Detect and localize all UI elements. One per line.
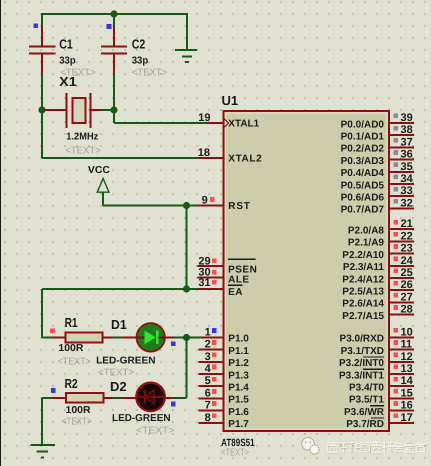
label D1 — [111, 317, 127, 332]
svg-text:ALE: ALE — [228, 275, 250, 286]
wire D1 to P1.0 — [174, 337, 202, 339]
svg-text:3: 3 — [205, 351, 211, 363]
pin 23 stub — [389, 253, 414, 255]
watermark text dianzi tongxin jishu aihaozhe — [327, 442, 427, 453]
pin number 33 — [401, 185, 413, 197]
svg-text:<TEXT>: <TEXT> — [65, 146, 101, 157]
terminal square pin 13 — [393, 365, 398, 370]
pin number 13 — [401, 363, 413, 375]
svg-text:32: 32 — [401, 197, 413, 209]
pin 26 stub — [389, 289, 414, 291]
pin 1 stub — [202, 336, 223, 338]
wire XTAL2 net — [42, 110, 199, 158]
pin number 10 — [401, 326, 413, 338]
pin number 24 — [401, 255, 414, 267]
label VCC — [88, 165, 110, 176]
pin 25 stub — [389, 277, 414, 279]
wire D2 right link — [174, 397, 187, 399]
pin name P3.3/INT1 — [339, 369, 384, 381]
svg-text:8: 8 — [205, 412, 211, 424]
svg-text:6: 6 — [205, 387, 211, 399]
pin number 1 — [205, 326, 211, 338]
svg-text:100R: 100R — [66, 405, 92, 416]
label U1 — [222, 93, 239, 108]
pin 37 stub — [389, 146, 414, 148]
ground bottom-left — [30, 445, 55, 458]
wire D1 junction down to D2 — [186, 338, 188, 399]
wire VCC to RST — [103, 205, 198, 207]
pin number 5 — [205, 375, 211, 387]
svg-text:9: 9 — [202, 194, 208, 206]
pin 34 stub — [389, 183, 414, 185]
ground top-right — [175, 50, 197, 62]
svg-text:XTAL1: XTAL1 — [228, 119, 259, 130]
terminal square pin 38 — [393, 126, 398, 131]
wire EA down to R1 — [41, 289, 43, 338]
svg-text:U1: U1 — [222, 93, 239, 108]
label D2 — [110, 379, 127, 394]
pin number 8 — [205, 412, 211, 424]
label C2 TEXT — [132, 68, 168, 79]
pin name P2.2/A10 — [342, 250, 384, 261]
svg-text:P1.4: P1.4 — [228, 383, 249, 394]
pin 15 stub — [389, 397, 414, 399]
svg-text:<TEXT>: <TEXT> — [98, 368, 134, 379]
pin name P1.5 — [228, 395, 249, 406]
wire EA net — [42, 288, 198, 290]
pin number 34 — [401, 173, 414, 185]
pin 27 stub — [389, 301, 414, 303]
junction RST — [183, 202, 190, 209]
svg-text:P3.2/INT0: P3.2/INT0 — [339, 358, 384, 369]
junction EA — [183, 285, 190, 292]
pin name P2.4/A12 — [342, 274, 384, 285]
svg-text:P1.7: P1.7 — [228, 419, 249, 430]
svg-text:C2: C2 — [132, 37, 146, 52]
pin number 36 — [401, 149, 413, 161]
pin 22 stub — [389, 240, 414, 242]
svg-text:4: 4 — [205, 363, 212, 375]
pin number 35 — [401, 161, 413, 173]
pin number 23 — [401, 243, 413, 255]
terminal square pin 11 — [393, 340, 398, 345]
label U1 TEXT — [221, 447, 249, 458]
pin 11 stub — [389, 349, 414, 351]
svg-text:<TEXT>: <TEXT> — [58, 357, 91, 368]
svg-text:11: 11 — [401, 339, 413, 351]
pin name XTAL2 — [228, 154, 262, 165]
terminal square pin 16 — [393, 401, 398, 406]
pin 5 stub — [199, 385, 223, 387]
pin number 39 — [401, 112, 413, 124]
terminal square pin 34 — [393, 175, 398, 180]
pin 18 stub — [199, 157, 223, 159]
svg-text:P0.7/AD7: P0.7/AD7 — [341, 205, 385, 216]
terminal square pin 24 — [393, 256, 398, 261]
pin number 6 — [205, 387, 211, 399]
svg-text:XTAL2: XTAL2 — [228, 154, 262, 165]
pin name XTAL1 — [228, 119, 259, 130]
svg-text:10: 10 — [401, 326, 413, 338]
pin 10 stub — [389, 336, 414, 338]
pin number 19 — [198, 112, 210, 124]
terminal square pin 28 — [393, 305, 398, 310]
resistor R1 — [52, 332, 113, 342]
pin name P1.0 — [228, 334, 249, 345]
svg-text:36: 36 — [401, 149, 413, 161]
terminal square pin 30 — [212, 270, 217, 275]
pin name P2.0/A8 — [348, 226, 385, 237]
terminal square pin 12 — [393, 352, 398, 357]
terminal square pin 17 — [393, 413, 398, 418]
value R1 100R — [58, 343, 84, 354]
pin 21 stub — [389, 228, 414, 230]
pin 13 stub — [389, 373, 414, 375]
junction C2 top — [110, 10, 117, 17]
terminal square pin 25 — [393, 269, 398, 274]
wire C1 bottom — [41, 73, 43, 110]
LED D2 — [122, 383, 174, 411]
wire R1 to D1 — [112, 337, 122, 339]
svg-text:33p: 33p — [59, 56, 75, 67]
label R1 — [65, 315, 78, 330]
svg-text:2: 2 — [205, 339, 211, 351]
pin 39 stub — [389, 122, 414, 124]
terminal square pin 23 — [393, 244, 398, 249]
svg-text:17: 17 — [401, 412, 413, 424]
pin name P3.5/T1 — [349, 395, 384, 406]
terminal square pin 15 — [393, 389, 398, 394]
pin 7 stub — [199, 410, 223, 412]
pin number 18 — [198, 147, 210, 159]
wire C2 bottom — [113, 73, 115, 110]
pin name P2.3/A11 — [343, 262, 385, 273]
svg-text:P0.5/AD5: P0.5/AD5 — [341, 180, 385, 191]
power VCC — [97, 179, 109, 207]
value D1 LED-GREEN — [96, 356, 156, 367]
svg-text:P0.2/AD2: P0.2/AD2 — [341, 144, 385, 155]
terminal square D2 right — [171, 402, 176, 407]
pin 8 stub — [199, 422, 223, 424]
pin 33 stub — [389, 195, 414, 197]
pin 4 stub — [199, 373, 223, 375]
svg-text:12: 12 — [401, 351, 413, 363]
terminal square pin 2 — [212, 340, 217, 345]
pin number 28 — [401, 304, 413, 316]
svg-text:33: 33 — [401, 185, 413, 197]
pin name P0.0/AD0 — [341, 119, 385, 130]
terminal square pin 32 — [393, 199, 398, 204]
svg-text:EA: EA — [228, 287, 243, 298]
pin name P0.2/AD2 — [341, 144, 385, 155]
pin 24 stub — [389, 265, 414, 267]
pin number 37 — [401, 136, 413, 148]
svg-text:X1: X1 — [59, 74, 76, 89]
terminal square pin 8 — [212, 413, 217, 418]
pin 29 stub — [198, 265, 223, 267]
pin 14 stub — [389, 385, 414, 387]
svg-text:P3.5/T1: P3.5/T1 — [349, 395, 384, 406]
pin number 22 — [401, 230, 413, 242]
svg-text:1: 1 — [205, 326, 211, 338]
svg-text:33p: 33p — [132, 56, 149, 67]
pin 35 stub — [389, 171, 414, 173]
terminal square D1 right — [171, 341, 176, 346]
label D1 TEXT — [98, 368, 134, 379]
pin number 2 — [205, 339, 211, 351]
pin name P1.6 — [228, 407, 249, 418]
wire C1 top — [41, 13, 43, 27]
watermark wechat logo — [302, 438, 319, 455]
svg-text:35: 35 — [401, 161, 413, 173]
label C1 — [59, 37, 72, 52]
pin number 27 — [401, 291, 413, 303]
pin 32 stub — [389, 207, 414, 209]
label X1 TEXT — [65, 146, 101, 157]
svg-text:<TEXT>: <TEXT> — [221, 447, 249, 458]
svg-text:D2: D2 — [110, 379, 127, 394]
pin name P1.3 — [228, 370, 249, 381]
pin name RST — [228, 201, 250, 212]
pin name P3.2/INT0 — [339, 357, 384, 369]
svg-text:P1.3: P1.3 — [228, 370, 249, 381]
pin name P3.4/T0 — [349, 383, 384, 394]
pin number 4 — [205, 363, 212, 375]
terminal square pin 33 — [393, 187, 398, 192]
terminal square pin 4 — [212, 365, 217, 370]
capacitor C1 — [29, 27, 56, 73]
svg-text:P3.3/INT1: P3.3/INT1 — [339, 370, 384, 381]
pin name P2.5/A13 — [342, 287, 384, 298]
terminal square pin 3 — [212, 352, 217, 357]
svg-text:P1.5: P1.5 — [228, 395, 249, 406]
svg-text:25: 25 — [401, 267, 413, 279]
value C1 33p — [59, 56, 75, 67]
label R2 TEXT — [62, 417, 92, 428]
terminal square pin 21 — [393, 220, 398, 225]
terminal square pin 29 — [212, 258, 217, 263]
pin name P0.3/AD3 — [341, 156, 385, 167]
terminal square C2 top — [107, 24, 112, 29]
terminal square pin 39 — [393, 114, 398, 119]
label R1 TEXT — [58, 357, 91, 368]
svg-text:14: 14 — [401, 375, 414, 387]
wire R2 to D2 — [112, 397, 122, 399]
label C2 — [132, 37, 146, 52]
svg-text:26: 26 — [401, 279, 413, 291]
pin name P2.6/A14 — [342, 299, 384, 310]
window edge line — [0, 0, 1, 466]
svg-text:P1.0: P1.0 — [228, 334, 249, 345]
pin name P1.2 — [228, 358, 249, 369]
pin name ALE — [228, 275, 250, 286]
svg-text:P2.6/A14: P2.6/A14 — [342, 299, 384, 310]
crystal X1 — [42, 93, 102, 128]
svg-text:15: 15 — [401, 387, 413, 399]
clock symbol XTAL1 — [224, 118, 229, 128]
svg-text:5: 5 — [205, 375, 211, 387]
junction P1.0 — [183, 334, 190, 341]
svg-text:7: 7 — [205, 400, 211, 412]
pin name P0.4/AD4 — [341, 168, 385, 179]
value D2 LED-GREEN — [112, 413, 171, 424]
svg-text:<TEXT>: <TEXT> — [132, 68, 168, 79]
pin name P0.5/AD5 — [341, 180, 385, 191]
svg-text:R2: R2 — [65, 376, 78, 391]
svg-text:P3.1/TXD: P3.1/TXD — [341, 346, 384, 357]
svg-text:R1: R1 — [65, 315, 78, 330]
value AT89S51 — [221, 437, 255, 449]
wire R2 to ground — [41, 398, 43, 445]
pin 19 stub — [207, 122, 223, 124]
pin 6 stub — [199, 397, 223, 399]
wire to R1 — [42, 337, 52, 339]
svg-text:P2.0/A8: P2.0/A8 — [348, 226, 385, 237]
svg-text:LED-GREEN: LED-GREEN — [96, 356, 156, 367]
pin number 3 — [205, 351, 211, 363]
pin number 16 — [401, 400, 413, 412]
svg-text:P0.0/AD0: P0.0/AD0 — [341, 119, 385, 130]
pin number 12 — [401, 351, 413, 363]
terminal square pin 10 — [393, 328, 398, 333]
pin name P2.7/A15 — [342, 311, 384, 322]
svg-text:P2.7/A15: P2.7/A15 — [342, 311, 384, 322]
svg-text:VCC: VCC — [88, 165, 110, 176]
svg-text:P2.4/A12: P2.4/A12 — [342, 274, 384, 285]
junction crystal left — [38, 106, 45, 113]
wire C2 top — [113, 13, 115, 27]
svg-text:<TEXT>: <TEXT> — [136, 425, 174, 436]
value C2 33p — [132, 56, 149, 67]
terminal square pin 14 — [393, 377, 398, 382]
pin name EA with overline — [228, 285, 243, 298]
terminal square R2 left — [51, 388, 56, 393]
pin 2 stub — [199, 349, 223, 351]
svg-text:P3.7/RD: P3.7/RD — [346, 419, 384, 430]
svg-text:16: 16 — [401, 400, 413, 412]
svg-text:P1.2: P1.2 — [228, 358, 249, 369]
terminal square pin 27 — [393, 293, 398, 298]
terminal square pin 26 — [393, 281, 398, 286]
pin name P3.1/TXD — [341, 346, 384, 357]
label X1 — [59, 74, 76, 89]
capacitor C2 — [101, 27, 127, 73]
terminal square pin 36 — [393, 150, 398, 155]
label R2 — [65, 376, 78, 391]
svg-text:34: 34 — [401, 173, 414, 185]
pin number 30 — [198, 267, 210, 279]
chip U1 AT89S51 body — [224, 111, 390, 431]
svg-text:P1.1: P1.1 — [228, 346, 249, 357]
value X1 1.2MHz — [66, 132, 98, 143]
pin number 7 — [205, 400, 211, 412]
pin 31 stub — [198, 288, 223, 290]
svg-text:<TEXT>: <TEXT> — [62, 417, 92, 428]
svg-text:P2.3/A11: P2.3/A11 — [343, 262, 385, 273]
wire crystal right to junction — [102, 109, 114, 111]
terminal square pin 7 — [212, 401, 217, 406]
pin number 25 — [401, 267, 413, 279]
svg-text:RST: RST — [228, 201, 250, 212]
pin 9 stub — [198, 205, 223, 207]
terminal square pin 9 — [210, 197, 215, 202]
pin name P0.7/AD7 — [341, 205, 385, 216]
terminal square pin 31 — [212, 280, 217, 285]
value R2 100R — [66, 405, 92, 416]
pin number 14 — [401, 375, 414, 387]
pin 30 stub — [198, 277, 223, 279]
svg-text:22: 22 — [401, 230, 413, 242]
svg-text:37: 37 — [401, 136, 413, 148]
pin number 32 — [401, 197, 413, 209]
svg-text:24: 24 — [401, 255, 414, 267]
svg-text:P0.4/AD4: P0.4/AD4 — [341, 168, 385, 179]
terminal square pin 5 — [212, 377, 217, 382]
pin name P3.6/WR — [344, 406, 385, 418]
terminal square R1 left — [50, 328, 55, 333]
pin name P0.6/AD6 — [341, 193, 385, 204]
wire top net C1-C2-ground — [42, 13, 187, 15]
pin name P3.7/RD — [346, 418, 384, 430]
terminal square C1 top — [33, 23, 38, 28]
terminal square pin 1 — [212, 328, 217, 333]
pin name P2.1/A9 — [348, 238, 385, 249]
svg-text:P0.1/AD1: P0.1/AD1 — [341, 132, 385, 143]
svg-text:P0.6/AD6: P0.6/AD6 — [341, 193, 385, 204]
pin number 21 — [401, 218, 413, 230]
pin 12 stub — [389, 361, 414, 363]
label D2 TEXT — [136, 425, 174, 436]
pin name P1.4 — [228, 383, 249, 394]
pin name P3.0/RXD — [340, 334, 384, 345]
LED D1 — [122, 323, 174, 351]
terminal square pin 37 — [393, 138, 398, 143]
pin name P0.1/AD1 — [341, 132, 385, 143]
pin name P1.1 — [228, 346, 249, 357]
svg-text:P3.0/RXD: P3.0/RXD — [340, 334, 384, 345]
svg-text:D1: D1 — [111, 317, 127, 332]
svg-text:13: 13 — [401, 363, 413, 375]
svg-text:100R: 100R — [58, 343, 84, 354]
pin 38 stub — [389, 134, 414, 136]
pin number 38 — [401, 124, 413, 136]
pin number 26 — [401, 279, 413, 291]
svg-text:19: 19 — [198, 112, 210, 124]
svg-text:23: 23 — [401, 243, 413, 255]
wire ground drop — [186, 13, 188, 50]
svg-text:31: 31 — [198, 277, 210, 289]
svg-text:39: 39 — [401, 112, 413, 124]
svg-text:38: 38 — [401, 124, 413, 136]
pin 36 stub — [389, 159, 414, 161]
pin name PSEN with overline — [228, 259, 257, 275]
svg-text:P2.1/A9: P2.1/A9 — [348, 238, 385, 249]
svg-text:P1.6: P1.6 — [228, 407, 249, 418]
wire R2 left — [42, 397, 52, 399]
pin 17 stub — [389, 422, 414, 424]
svg-text:LED-GREEN: LED-GREEN — [112, 413, 171, 424]
pin number 11 — [401, 339, 413, 351]
wire RST to EA vertical — [186, 206, 188, 290]
svg-text:1.2MHz: 1.2MHz — [66, 132, 98, 143]
pin number 15 — [401, 387, 413, 399]
label C1 TEXT — [60, 68, 96, 79]
resistor R2 — [52, 393, 113, 403]
svg-text:21: 21 — [401, 218, 413, 230]
svg-text:P0.3/AD3: P0.3/AD3 — [341, 156, 385, 167]
pin 3 stub — [199, 361, 223, 363]
junction crystal right — [110, 106, 117, 113]
